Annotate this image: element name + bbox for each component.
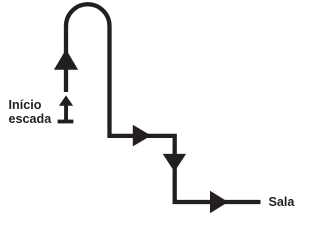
start-marker stem [64,104,68,121]
wire: main route (up over arch, down, right, down, right) [66,4,261,202]
down arrowhead on middle vertical segment [163,154,186,172]
right arrowhead on bottom segment toward Sala [210,191,228,213]
start-marker base bar [58,120,74,124]
label: Início escada [9,98,52,126]
start-marker small up arrowhead [59,95,73,105]
big up arrowhead on left leg [54,49,78,70]
right arrowhead on first horizontal segment [133,125,151,147]
label: Sala [269,195,295,209]
